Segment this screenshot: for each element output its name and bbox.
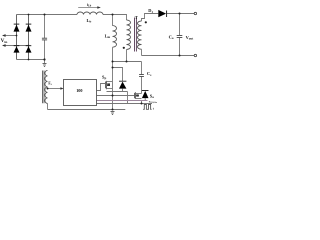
svg-text:Cs: Cs: [147, 71, 152, 77]
svg-text:D1: D1: [148, 8, 153, 14]
svg-text:Lm: Lm: [105, 33, 111, 39]
svg-text:Sa: Sa: [150, 93, 154, 99]
svg-text:Lb: Lb: [87, 18, 92, 24]
svg-text:100: 100: [76, 88, 82, 93]
svg-text:Sp: Sp: [102, 75, 106, 81]
svg-text:Co: Co: [169, 34, 174, 40]
svg-text:vGS,Sa: vGS,Sa: [149, 99, 158, 104]
svg-text:t: t: [153, 106, 154, 110]
svg-text:Fs: Fs: [48, 81, 51, 86]
svg-text:Vout: Vout: [186, 35, 195, 41]
svg-text:T: T: [135, 15, 138, 20]
svg-text:Vin: Vin: [1, 38, 8, 44]
svg-text:iLb: iLb: [87, 3, 92, 8]
